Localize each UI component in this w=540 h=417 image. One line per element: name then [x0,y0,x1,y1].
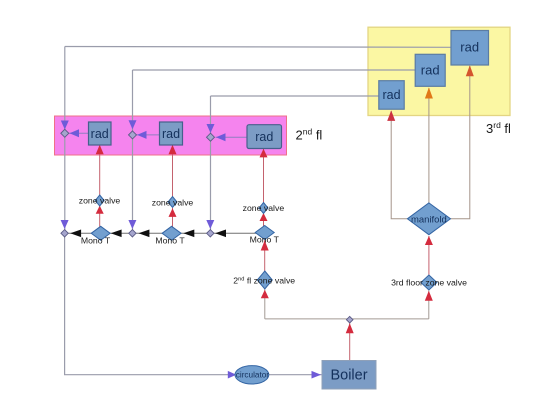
svg-text:zone valve: zone valve [152,197,194,207]
arrow purple left into node 2 [137,131,147,139]
arrow purple down into mono node 2 [128,220,136,229]
arrow red up into zone valve 3 [260,213,268,221]
rad 3rd floor bottom-left [379,81,404,110]
pipe zone2 monoT to zone valve [172,208,174,227]
svg-text:Mono T: Mono T [250,235,280,245]
Mono T diamond 2 [162,226,181,240]
rad 3rd floor middle [415,54,445,86]
arrow purple down into mono node 3 [206,220,214,229]
2nd fl zone valve diamond [257,271,272,289]
arrow purple left into node 3 [216,133,226,141]
arrow black left after monoT1 [111,230,122,238]
zone valve diamond 3 [259,203,268,214]
arrow red up into 3rdfl zone valve [425,291,433,301]
rad 2nd floor 3 [247,125,282,149]
arrow orange-red up into 3rd fl rad top [466,65,474,76]
wire circulator to boiler [269,374,322,376]
arrow red up into supply junction [346,323,354,333]
svg-text:manifold: manifold [411,214,447,225]
rad 3rd floor top [451,31,489,66]
arrow purple down into node 1 [61,121,69,130]
arrow red up into monoT3 [261,241,269,251]
3rd floor zone valve diamond [421,275,437,290]
mono node diamond left [61,230,68,237]
pipe 2ndfl zone valve to monoT3 [264,240,266,272]
svg-text:Boiler: Boiler [330,368,367,384]
svg-text:zone valve: zone valve [243,203,285,213]
pipe 2ndfl zone valve riser [264,289,266,319]
pipe zone3 monoT to zone valve [263,214,265,227]
rad 2nd floor 2 [160,122,183,145]
mono node diamond 3 [207,230,214,237]
arrow purple right into boiler [312,371,322,379]
svg-text:Mono T: Mono T [155,236,185,246]
2nd floor pink zone [55,116,287,155]
Mono T diamond 1 [91,226,110,240]
arrow orange up into 3rd fl rad middle [425,87,433,98]
arrow red up into manifold [425,236,433,245]
pipe zone2 valve to rad2 [172,145,174,197]
svg-text:zone valve: zone valve [79,196,121,206]
wire mono-flow main line [65,232,265,234]
circulator [235,366,269,384]
svg-text:rad: rad [382,88,400,102]
arrow red up into zone valve 2 [169,208,177,217]
pipe zone1 valve to rad1 [99,145,101,195]
arrow purple down into node 3 [207,124,215,133]
arrow purple down into node 2 [129,120,137,129]
pipe rad2 to node diamond 2 [137,134,160,136]
wire horizontal to 3rd fl rad bottom [211,95,379,97]
arrow red up into zone valve 1 [96,206,104,214]
svg-text:circulator: circulator [236,371,269,380]
svg-text:rad: rad [255,130,273,144]
arrow red up into rad2 [169,145,177,155]
zone valve diamond 1 [95,195,104,206]
mono node diamond 2 [129,230,136,237]
svg-text:rad: rad [460,40,479,55]
wire return riser 3 [210,96,212,233]
arrow purple left into node 1 [70,129,80,137]
3rd floor yellow zone [368,27,510,115]
pipe supply horizontal from boiler junction [265,318,429,320]
svg-text:rad: rad [91,127,109,141]
svg-text:rad: rad [162,127,180,141]
node diamond 2 (pink band) [129,131,137,139]
arrow black left after mono node 3 [215,230,226,238]
boiler [322,361,376,390]
arrow red up into 2ndfl zone valve [261,290,269,299]
manifold diamond [407,203,450,235]
pipe zone1 monoT to zone valve [99,206,101,227]
arrow purple right into circulator [228,371,237,379]
arrow black left after mono node 2 [139,230,150,238]
pipe manifold left branch to rad bottom-left [391,111,407,219]
pipe rad3 to node diamond 3 [216,136,248,138]
pipe zone3 valve to rad3 [263,149,265,203]
pipe 3rd fl zone valve to manifold [428,236,430,276]
arrow red up into 3rd fl rad bottom-left [387,110,395,121]
arrow black left after mono node left [70,230,81,238]
pipe rad1 to node diamond 1 [69,132,89,134]
node diamond 1 (pink band) [61,129,69,137]
svg-text:3rd floor zone valve: 3rd floor zone valve [391,278,467,288]
svg-text:rad: rad [421,63,440,78]
wire top horizontal to 3rd fl rad top [65,46,451,49]
arrow red up into rad1 [96,145,104,155]
svg-text:Mono T: Mono T [81,236,111,246]
arrow black left after monoT2 [183,230,194,238]
pipe boiler riser [349,320,351,360]
rad 2nd floor 1 [89,122,112,145]
wire horizontal to 3rd fl rad middle [133,69,416,71]
Mono T diamond 3 [255,226,274,240]
zone valve diamond 2 [168,197,177,208]
wire return riser 1 [64,47,66,234]
supply junction diamond [346,316,353,323]
wire return riser 2 [132,70,134,233]
arrow purple down into mono node 1 [61,220,69,229]
arrow red up into rad3 [260,149,268,158]
pipe manifold middle branch to rad middle [428,88,430,203]
wire bottom return to circulator [65,233,235,374]
pipe manifold right branch to rad top [451,66,470,219]
node diamond 3 (pink band) [207,133,215,141]
pipe 3rd floor zone valve riser [428,291,430,319]
